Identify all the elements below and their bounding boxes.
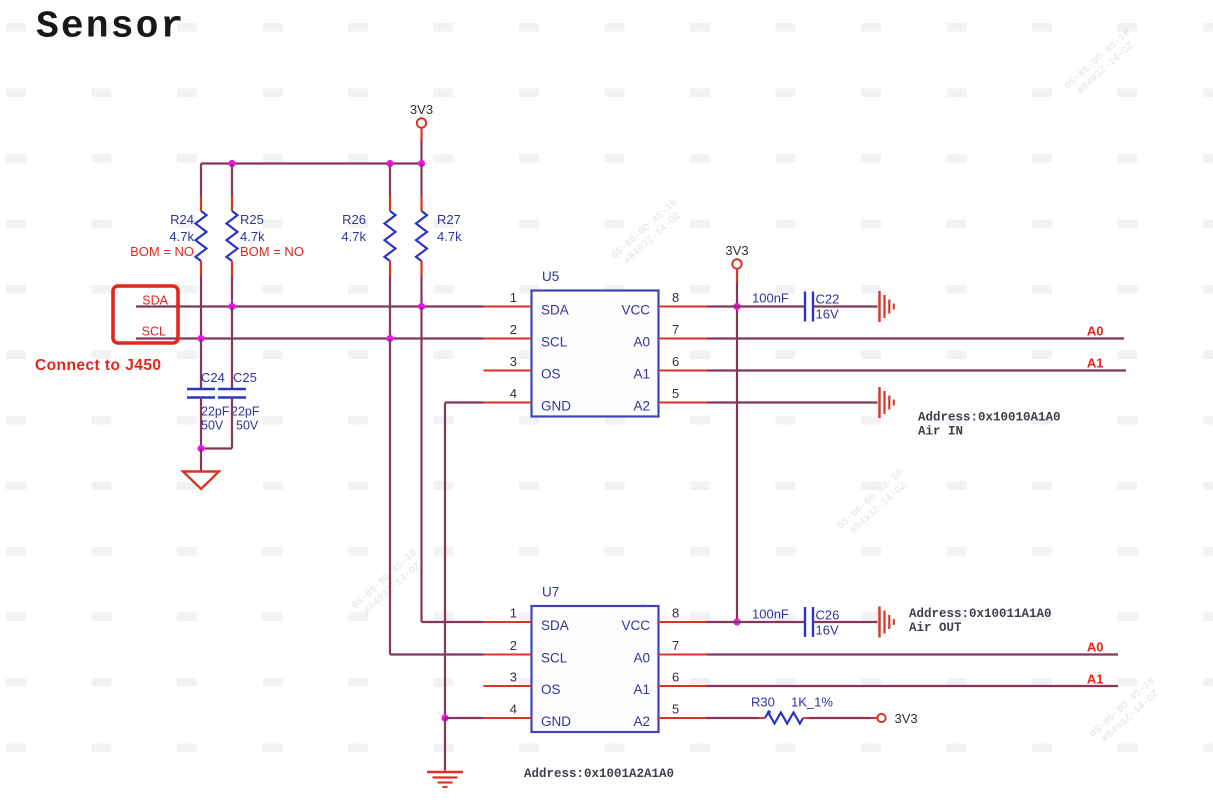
node SDA-R27 junction <box>418 303 425 310</box>
svg-text:Connect to J450: Connect to J450 <box>35 357 161 374</box>
wire U5 VCC to C22 <box>707 305 806 307</box>
node U7 GND junction <box>441 714 448 721</box>
svg-text:OS: OS <box>541 682 561 697</box>
wire C25 bottom L <box>231 398 233 449</box>
wire U7 VCC to C26 <box>707 621 806 623</box>
svg-text:A1: A1 <box>1087 356 1104 371</box>
ground (earth, bottom) <box>427 771 463 773</box>
op-amp U7 (temp sensor IC) body <box>532 606 659 732</box>
svg-text:1: 1 <box>510 606 517 621</box>
svg-text:Address:0x10010A1A0: Address:0x10010A1A0 <box>918 411 1061 425</box>
svg-text:C25: C25 <box>233 370 257 385</box>
svg-text:A0: A0 <box>1087 640 1104 655</box>
U7 pin 2 SCL <box>484 653 532 655</box>
wire net A0 (U7) <box>707 653 1119 655</box>
decorative watermark texts <box>350 28 1166 749</box>
svg-text:Address:0x10011A1A0: Address:0x10011A1A0 <box>909 607 1052 621</box>
wire rail to R27 <box>420 164 422 197</box>
svg-text:A1: A1 <box>1087 672 1104 687</box>
ground (right of C22) <box>878 291 880 322</box>
wire SDA net <box>136 305 484 307</box>
resistor R27 4.7k <box>420 196 422 211</box>
ground (triangle) under C24/C25 <box>183 472 219 490</box>
svg-text:6: 6 <box>672 354 679 369</box>
svg-text:C26: C26 <box>816 608 840 623</box>
wire SDA to C25 <box>231 307 233 389</box>
svg-text:C24: C24 <box>201 370 225 385</box>
svg-text:7: 7 <box>672 638 679 653</box>
wire R26 to U7 SCL <box>389 339 391 655</box>
wire rail to R26 <box>389 164 391 197</box>
wire R25 to bus <box>231 276 233 307</box>
svg-text:22pF: 22pF <box>231 405 260 419</box>
wire U5 GND down <box>445 401 484 403</box>
svg-text:SDA: SDA <box>541 303 569 318</box>
svg-text:16V: 16V <box>816 307 839 322</box>
svg-text:Air OUT: Air OUT <box>909 621 962 635</box>
svg-text:8: 8 <box>672 290 679 305</box>
svg-text:BOM = NO: BOM = NO <box>130 244 194 259</box>
svg-text:4.7k: 4.7k <box>240 229 265 244</box>
svg-text:5: 5 <box>672 386 679 401</box>
svg-text:50V: 50V <box>201 419 224 433</box>
svg-text:A0: A0 <box>633 651 650 666</box>
wire R26 to bus <box>389 276 391 339</box>
svg-text:4: 4 <box>510 702 517 717</box>
svg-text:SDA: SDA <box>541 618 569 633</box>
wire U7 A2 to R30 <box>707 717 760 719</box>
U5 pin 1 SDA <box>484 305 532 307</box>
U5 pin 8 VCC <box>659 305 707 307</box>
U7 pin 7 A0 <box>659 653 707 655</box>
svg-text:VCC: VCC <box>621 303 650 318</box>
wire R27 to bus <box>420 276 422 307</box>
svg-text:Sensor: Sensor <box>36 6 185 49</box>
svg-text:6: 6 <box>672 670 679 685</box>
svg-text:4.7k: 4.7k <box>169 229 194 244</box>
resistor R30 1K_1% <box>765 713 803 724</box>
wire SCL net <box>136 337 484 339</box>
capacitor C25 22pF <box>218 388 246 390</box>
svg-text:R30: R30 <box>751 695 775 710</box>
wire rail to R25 <box>231 164 233 197</box>
svg-text:4.7k: 4.7k <box>341 229 366 244</box>
svg-text:50V: 50V <box>236 419 259 433</box>
node rail-R25 junction <box>228 160 235 167</box>
capacitor C22 100nF <box>804 292 806 322</box>
wire rail to R24 <box>200 164 202 197</box>
svg-text:3: 3 <box>510 354 517 369</box>
node SDA-R25 junction <box>228 303 235 310</box>
capacitor C24 22pF <box>187 388 215 390</box>
node SCL-R24 junction <box>197 335 204 342</box>
U5 pin 2 SCL <box>484 337 532 339</box>
U7 pin 5 A2 <box>659 717 707 719</box>
svg-text:4.7k: 4.7k <box>437 229 462 244</box>
wire U7 GND stub <box>445 717 484 719</box>
U5 pin 4 GND <box>484 401 532 403</box>
wire R30 to 3V3 <box>803 717 809 719</box>
resistor R26 4.7k <box>389 196 391 211</box>
U7 pin 8 VCC <box>659 621 707 623</box>
wire U5 A2 to ground <box>707 401 878 403</box>
svg-text:A1: A1 <box>633 682 650 697</box>
wire R24 to bus <box>200 276 202 339</box>
node SCL-R26 junction <box>386 335 393 342</box>
U7 pin 6 A1 <box>659 685 707 687</box>
U7 pin 3 OS <box>484 685 532 687</box>
svg-text:SDA: SDA <box>142 294 168 308</box>
svg-text:7: 7 <box>672 322 679 337</box>
svg-text:4: 4 <box>510 386 517 401</box>
svg-text:A0: A0 <box>1087 324 1104 339</box>
svg-text:100nF: 100nF <box>752 607 789 622</box>
node VCC-U5 junction <box>733 303 740 310</box>
svg-text:SCL: SCL <box>541 335 568 350</box>
resistor R25 4.7k <box>231 196 233 211</box>
svg-text:22pF: 22pF <box>201 405 230 419</box>
wire C24 bottom <box>200 398 202 449</box>
svg-text:100nF: 100nF <box>752 291 789 306</box>
node rail-R26 junction <box>386 160 393 167</box>
wire GND down to earth <box>444 718 446 771</box>
svg-text:1K_1%: 1K_1% <box>791 695 833 710</box>
U7 pin 4 GND <box>484 717 532 719</box>
svg-text:2: 2 <box>510 638 517 653</box>
wire C22 to ground <box>813 305 878 307</box>
U5 pin 6 A1 <box>659 369 707 371</box>
svg-text:U7: U7 <box>542 585 559 600</box>
svg-text:2: 2 <box>510 322 517 337</box>
svg-text:R27: R27 <box>437 212 461 227</box>
svg-text:VCC: VCC <box>621 618 650 633</box>
power symbol 3V3 (R30) <box>877 714 885 722</box>
wire net A1 (U5) <box>707 369 1127 371</box>
svg-text:3V3: 3V3 <box>410 102 433 117</box>
svg-text:A2: A2 <box>633 399 650 414</box>
node cap-gnd junction <box>197 445 204 452</box>
U5 pin 5 A2 <box>659 401 707 403</box>
svg-text:R25: R25 <box>240 212 264 227</box>
wire to ground triangle <box>200 449 202 472</box>
svg-text:16V: 16V <box>816 623 839 638</box>
wire net A0 (U5) <box>707 337 1125 339</box>
wire top rail <box>201 162 422 164</box>
U7 pin 1 SDA <box>484 621 532 623</box>
callout box Connect to J450 <box>113 286 178 343</box>
node VCC-U7 junction <box>733 618 740 625</box>
svg-text:SCL: SCL <box>142 325 166 339</box>
svg-text:3V3: 3V3 <box>895 711 918 726</box>
wire SCL to C24 <box>200 339 202 389</box>
wire C26 to ground <box>813 621 878 623</box>
resistor R24 4.7k <box>200 196 202 211</box>
svg-text:U5: U5 <box>542 269 559 284</box>
svg-text:GND: GND <box>541 714 571 729</box>
svg-text:Address:0x1001A2A1A0: Address:0x1001A2A1A0 <box>524 767 674 781</box>
ground (U5 A2) <box>878 387 880 418</box>
svg-text:Air IN: Air IN <box>918 425 963 439</box>
node rail-R27 junction <box>418 160 425 167</box>
svg-text:8: 8 <box>672 606 679 621</box>
ground (right of C26) <box>878 607 880 638</box>
svg-text:5: 5 <box>672 702 679 717</box>
svg-text:C22: C22 <box>816 292 840 307</box>
svg-text:A0: A0 <box>633 335 650 350</box>
svg-text:BOM = NO: BOM = NO <box>240 244 304 259</box>
U5 pin 3 OS <box>484 369 532 371</box>
wire R27 to U7 SDA <box>420 307 422 623</box>
svg-text:SCL: SCL <box>541 651 568 666</box>
svg-text:A1: A1 <box>633 367 650 382</box>
svg-text:A2: A2 <box>633 714 650 729</box>
wire VCC vertical <box>736 269 738 285</box>
wire 3V3 stub to rail <box>420 128 422 142</box>
svg-text:1: 1 <box>510 290 517 305</box>
capacitor C26 100nF <box>804 607 806 637</box>
svg-text:R26: R26 <box>342 212 366 227</box>
wire net A1 (U7) <box>707 685 1119 687</box>
svg-text:R24: R24 <box>170 212 194 227</box>
svg-text:OS: OS <box>541 367 561 382</box>
svg-text:3V3: 3V3 <box>725 243 748 258</box>
svg-text:3: 3 <box>510 670 517 685</box>
svg-text:GND: GND <box>541 399 571 414</box>
op-amp U5 (temp sensor IC) body <box>532 291 659 417</box>
U5 pin 7 A0 <box>659 337 707 339</box>
